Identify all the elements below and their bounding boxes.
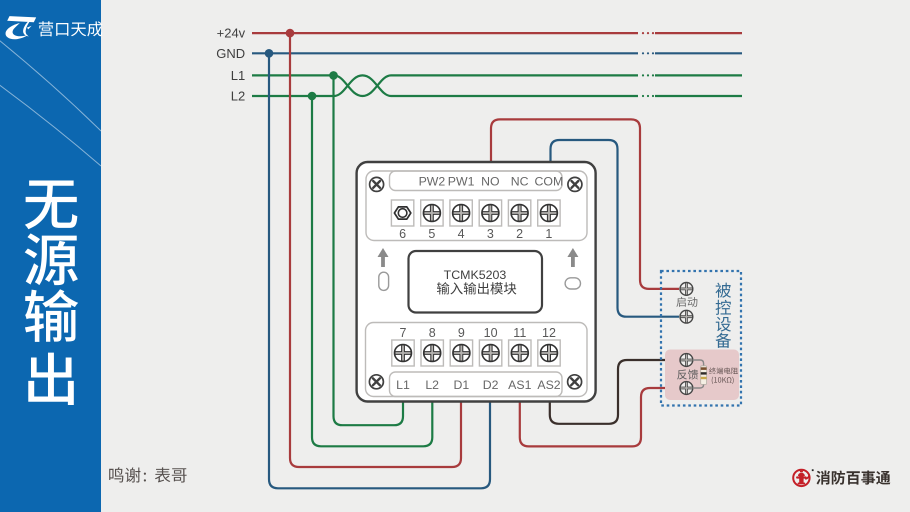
svg-text:2: 2	[516, 227, 523, 241]
terminal 8 (screw)	[421, 340, 443, 366]
svg-text:5: 5	[428, 227, 435, 241]
wire AS2 to 反馈 top	[550, 360, 680, 424]
terminal 反馈 bottom	[680, 382, 693, 395]
terminal 反馈 top	[680, 354, 693, 367]
svg-text:AS1: AS1	[508, 378, 531, 392]
svg-text:L2: L2	[425, 378, 439, 392]
terminal 3 (screw)	[479, 200, 501, 226]
wire +24v bus	[252, 32, 742, 34]
svg-text:NC: NC	[511, 175, 529, 189]
svg-text:4: 4	[458, 227, 465, 241]
svg-text:1: 1	[545, 227, 552, 241]
terminal 12 (screw)	[538, 340, 560, 366]
resistor R (terminal resistor) leads	[693, 360, 704, 388]
wire L2 bus	[252, 95, 742, 97]
svg-text:10: 10	[484, 326, 498, 340]
terminal labels PW2 PW1 NO NC COM	[419, 175, 564, 189]
wire L1-L2 twisted pair	[334, 75, 391, 96]
label 启动	[676, 297, 697, 307]
terminal 启动 -	[680, 310, 693, 323]
terminal block bottom	[366, 323, 588, 397]
pin numbers 7 8 9 10 11 12	[400, 326, 556, 340]
node +24v junction	[286, 29, 295, 38]
label 终端电阻 (10KΩ)	[709, 367, 738, 384]
footer logo 消防百事通	[793, 469, 890, 486]
svg-text:11: 11	[513, 326, 526, 340]
svg-text:PW2: PW2	[419, 175, 446, 189]
module TCMK5203 outline	[357, 162, 596, 402]
mounting screw top-left	[370, 177, 384, 191]
svg-text:GND: GND	[216, 46, 245, 61]
wire L1 to terminal 7	[334, 75, 404, 425]
terminal 7 (screw)	[392, 340, 414, 366]
resistor terminal block (pink)	[665, 350, 739, 401]
text 输入输出模块	[437, 282, 516, 294]
sidebar panel	[0, 0, 101, 512]
terminal 10 (screw)	[479, 340, 501, 366]
wire L1 bus	[252, 74, 742, 76]
svg-text:COM: COM	[535, 175, 564, 189]
wire COM to 启动 -	[551, 140, 680, 317]
company logo mark	[6, 16, 37, 39]
svg-text:7: 7	[400, 326, 407, 340]
resistor R 10K body	[701, 366, 707, 385]
mounting screw bottom-left	[369, 375, 383, 389]
terminal 5 (screw)	[421, 200, 443, 226]
terminal 9 (screw)	[450, 340, 472, 366]
pin numbers 6 5 4 3 2 1	[399, 227, 552, 241]
node GND junction	[265, 49, 274, 58]
label 反馈	[677, 369, 698, 379]
wire AS1 to 反馈 bottom	[520, 388, 680, 446]
module label box	[409, 251, 543, 313]
terminal 6 (hex nut)	[391, 200, 413, 226]
terminal 11 (screw)	[509, 340, 531, 366]
arrow marker left	[378, 248, 389, 267]
wire +24v to terminal D1	[290, 33, 461, 467]
credit text 鸣谢:表哥	[109, 467, 186, 482]
wire GND to terminal D2	[269, 53, 490, 488]
mounting screw bottom-right	[568, 375, 582, 389]
svg-text:9: 9	[458, 326, 465, 340]
indicator window right (horizontal pill)	[565, 278, 580, 289]
svg-text:NO: NO	[481, 175, 499, 189]
mounting screw top-right	[568, 177, 582, 191]
wire L2 to terminal 8	[312, 96, 432, 446]
svg-text:L2: L2	[231, 89, 245, 104]
svg-text:L1: L1	[396, 378, 410, 392]
svg-text:+24v: +24v	[217, 26, 246, 41]
node L1 junction	[329, 71, 338, 80]
arrow marker right	[567, 248, 578, 267]
wire NO to 启动 +	[491, 119, 679, 289]
terminal labels L1 L2 D1 D2 AS1 AS2	[396, 378, 561, 392]
wire GND bus	[252, 52, 742, 54]
terminal 2 (screw)	[508, 200, 530, 226]
svg-text:12: 12	[542, 326, 556, 340]
svg-text:L1: L1	[231, 68, 245, 83]
title 无源输出	[25, 180, 79, 404]
label 被控设备	[716, 283, 732, 348]
controlled device dashed box	[661, 271, 741, 406]
svg-text:TCMK5203: TCMK5203	[444, 268, 507, 282]
terminal block top	[366, 171, 587, 241]
svg-text:6: 6	[399, 227, 406, 241]
svg-text:AS2: AS2	[537, 378, 560, 392]
svg-text:PW1: PW1	[448, 175, 475, 189]
svg-text:D2: D2	[483, 378, 499, 392]
svg-text:D1: D1	[454, 378, 470, 392]
terminal 4 (screw)	[450, 200, 472, 226]
node L2 junction	[308, 92, 317, 101]
svg-text:3: 3	[487, 227, 494, 241]
company name 营口天成	[39, 21, 103, 36]
terminal 启动 +	[680, 283, 693, 296]
indicator window left (vertical pill)	[379, 272, 389, 290]
terminal 1 (screw)	[538, 200, 560, 226]
svg-text:8: 8	[429, 326, 436, 340]
